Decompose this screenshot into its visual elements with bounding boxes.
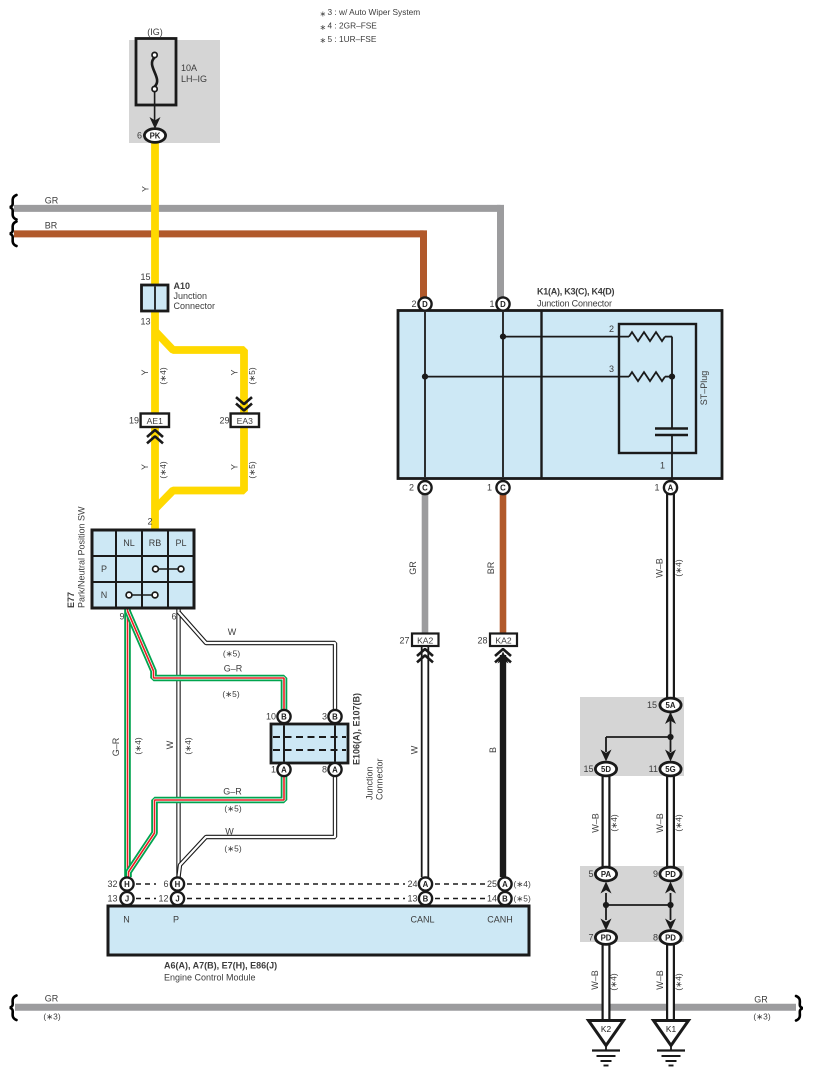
svg-text:Connector: Connector [174, 301, 216, 311]
svg-text:6: 6 [163, 879, 168, 889]
svg-text:B: B [423, 894, 429, 903]
svg-text:Junction: Junction [174, 291, 208, 301]
svg-text:(∗5): (∗5) [247, 461, 257, 478]
svg-text:13: 13 [140, 317, 150, 327]
svg-text:A: A [281, 765, 287, 774]
svg-text:J: J [175, 894, 179, 903]
svg-text:5G: 5G [665, 765, 675, 774]
svg-text:A: A [332, 765, 338, 774]
svg-text:W: W [165, 740, 175, 749]
svg-text:PK: PK [150, 131, 161, 140]
svg-text:E77: E77 [66, 592, 76, 608]
svg-text:2: 2 [411, 299, 416, 309]
svg-text:(IG): (IG) [147, 27, 163, 37]
svg-text:D: D [422, 300, 428, 309]
svg-text:B: B [281, 712, 287, 721]
svg-text:3: 3 [322, 712, 327, 722]
svg-text:B: B [332, 712, 338, 721]
svg-text:K2: K2 [601, 1024, 612, 1034]
svg-text:29: 29 [219, 415, 229, 425]
svg-text:GR: GR [45, 195, 59, 205]
svg-text:Y: Y [140, 369, 150, 375]
svg-text:(∗5): (∗5) [224, 804, 241, 814]
svg-text:W: W [410, 745, 420, 754]
svg-text:15: 15 [583, 764, 593, 774]
svg-text:(∗4): (∗4) [674, 814, 684, 831]
svg-text:15: 15 [647, 700, 657, 710]
svg-text:25: 25 [487, 879, 497, 889]
svg-text:2: 2 [147, 516, 152, 526]
svg-text:ST–Plug: ST–Plug [699, 371, 709, 406]
svg-text:K1: K1 [666, 1024, 677, 1034]
svg-text:A: A [502, 880, 508, 889]
svg-text:(∗5): (∗5) [223, 649, 240, 659]
svg-text:(∗4): (∗4) [514, 879, 531, 889]
svg-text:W–B: W–B [590, 970, 600, 990]
svg-text:5 : 1UR–FSE: 5 : 1UR–FSE [328, 34, 377, 44]
svg-text:14: 14 [487, 894, 497, 904]
svg-text:1: 1 [489, 299, 494, 309]
svg-text:28: 28 [477, 635, 487, 645]
svg-text:5D: 5D [601, 765, 611, 774]
svg-text:W–B: W–B [591, 813, 601, 833]
svg-text:C: C [422, 484, 428, 493]
svg-text:P: P [101, 564, 107, 574]
svg-text:Y: Y [141, 186, 151, 192]
svg-text:24: 24 [407, 879, 417, 889]
svg-text:EA3: EA3 [237, 416, 253, 426]
svg-text:W–B: W–B [655, 558, 665, 578]
svg-text:Junction Connector: Junction Connector [537, 298, 612, 308]
svg-text:Y: Y [230, 369, 240, 375]
svg-text:G–R: G–R [224, 664, 243, 674]
svg-text:KA2: KA2 [417, 635, 433, 645]
svg-text:(∗4): (∗4) [674, 559, 684, 576]
svg-text:Park/Neutral Position SW: Park/Neutral Position SW [77, 506, 87, 608]
svg-text:32: 32 [107, 879, 117, 889]
svg-text:10: 10 [266, 712, 276, 722]
svg-text:5: 5 [588, 869, 593, 879]
svg-text:∗: ∗ [320, 23, 327, 32]
svg-text:A10: A10 [174, 281, 191, 291]
svg-text:Y: Y [230, 464, 240, 470]
svg-text:B: B [502, 894, 508, 903]
svg-text:D: D [500, 300, 506, 309]
svg-text:RB: RB [149, 538, 162, 548]
svg-text:6: 6 [171, 612, 176, 622]
svg-text:GR: GR [45, 993, 59, 1003]
svg-text:Junction: Junction [365, 766, 375, 800]
svg-text:8: 8 [653, 933, 658, 943]
svg-text:BR: BR [45, 220, 58, 230]
svg-text:19: 19 [129, 415, 139, 425]
svg-text:A6(A), A7(B), E7(H), E86(J): A6(A), A7(B), E7(H), E86(J) [164, 960, 277, 970]
svg-text:PD: PD [665, 933, 676, 942]
svg-text:PA: PA [601, 870, 612, 879]
svg-text:1: 1 [654, 483, 659, 493]
svg-text:(∗4): (∗4) [133, 737, 143, 754]
svg-text:11: 11 [649, 764, 658, 774]
svg-text:1: 1 [271, 765, 276, 775]
svg-text:B: B [488, 747, 498, 753]
svg-text:N: N [101, 590, 108, 600]
svg-text:9: 9 [653, 869, 658, 879]
svg-text:(∗4): (∗4) [674, 973, 684, 990]
svg-text:G–R: G–R [111, 737, 121, 756]
svg-text:PL: PL [175, 538, 186, 548]
svg-text:H: H [124, 880, 130, 889]
svg-text:1: 1 [487, 483, 492, 493]
svg-text:15: 15 [140, 272, 150, 282]
svg-text:6: 6 [137, 131, 142, 141]
svg-text:J: J [125, 894, 129, 903]
svg-text:W–B: W–B [655, 813, 665, 833]
svg-text:1: 1 [660, 461, 665, 471]
svg-text:GR: GR [408, 561, 418, 575]
svg-text:2: 2 [609, 324, 614, 334]
svg-text:(∗5): (∗5) [514, 894, 531, 904]
svg-text:(∗5): (∗5) [224, 844, 241, 854]
svg-text:27: 27 [399, 635, 409, 645]
svg-text:5A: 5A [666, 701, 676, 710]
svg-text:LH–IG: LH–IG [181, 74, 207, 84]
svg-text:Engine Control Module: Engine Control Module [164, 972, 256, 982]
svg-text:KA2: KA2 [495, 635, 511, 645]
svg-text:W: W [228, 627, 237, 637]
svg-text:E106(A), E107(B): E106(A), E107(B) [352, 693, 362, 765]
svg-text:GR: GR [754, 994, 768, 1004]
svg-text:W–B: W–B [655, 970, 665, 990]
svg-text:(∗4): (∗4) [158, 367, 168, 384]
svg-text:(∗4): (∗4) [609, 814, 619, 831]
svg-text:(∗3): (∗3) [753, 1011, 770, 1021]
svg-text:N: N [123, 914, 130, 924]
svg-text:C: C [500, 484, 506, 493]
svg-text:∗: ∗ [320, 36, 327, 45]
svg-text:12: 12 [158, 894, 168, 904]
svg-text:∗: ∗ [320, 9, 327, 18]
svg-text:(∗5): (∗5) [222, 689, 239, 699]
svg-text:BR: BR [486, 561, 496, 574]
svg-text:PD: PD [601, 933, 612, 942]
svg-text:A: A [423, 880, 429, 889]
svg-text:AE1: AE1 [147, 416, 163, 426]
svg-text:Y: Y [140, 464, 150, 470]
svg-text:7: 7 [588, 933, 593, 943]
svg-text:CANL: CANL [410, 914, 434, 924]
svg-text:3: 3 [609, 364, 614, 374]
svg-text:4 : 2GR–FSE: 4 : 2GR–FSE [328, 21, 378, 31]
svg-text:A: A [668, 484, 674, 493]
svg-text:K1(A), K3(C), K4(D): K1(A), K3(C), K4(D) [537, 286, 615, 296]
svg-text:(∗5): (∗5) [247, 367, 257, 384]
svg-text:NL: NL [123, 538, 135, 548]
svg-text:Connector: Connector [375, 758, 385, 800]
svg-text:13: 13 [407, 894, 417, 904]
svg-text:3 : w/ Auto Wiper System: 3 : w/ Auto Wiper System [328, 7, 421, 17]
svg-text:2: 2 [409, 483, 414, 493]
svg-text:G–R: G–R [223, 787, 242, 797]
svg-text:(∗4): (∗4) [183, 737, 193, 754]
svg-text:13: 13 [107, 894, 117, 904]
svg-text:W: W [225, 827, 234, 837]
svg-text:(∗4): (∗4) [158, 461, 168, 478]
svg-text:(∗4): (∗4) [609, 973, 619, 990]
svg-text:PD: PD [665, 870, 676, 879]
svg-text:H: H [175, 880, 181, 889]
svg-text:CANH: CANH [487, 914, 513, 924]
svg-text:9: 9 [119, 612, 124, 622]
svg-text:8: 8 [322, 765, 327, 775]
svg-text:(∗3): (∗3) [43, 1011, 60, 1021]
svg-text:P: P [173, 914, 179, 924]
svg-text:10A: 10A [181, 63, 197, 73]
